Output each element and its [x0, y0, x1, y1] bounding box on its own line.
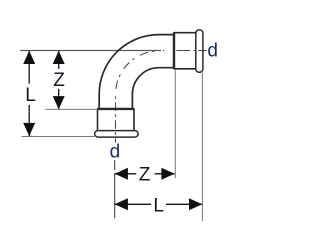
svg-text:L: L [25, 85, 36, 106]
centerline bend arc dash-dot [116, 51, 159, 94]
socket R body edges [174, 33, 196, 69]
dim L horizontal [115, 203, 203, 205]
svg-text:d: d [207, 40, 218, 61]
ext line Z bottom [46, 108, 98, 110]
socket B bead [95, 131, 138, 138]
dim Z horizontal [115, 173, 175, 175]
centerline vertical lower [114, 160, 116, 218]
svg-text:Z: Z [139, 165, 151, 186]
wire: top extension line merged with horizontal centerline [20, 50, 164, 52]
ext line right (from socket R face) [201, 73, 203, 222]
svg-text:d: d [110, 142, 121, 163]
ext line bottom face [22, 136, 95, 138]
socket R bead [196, 30, 203, 72]
socket B shoulder [97, 108, 135, 110]
svg-text:L: L [153, 196, 164, 217]
svg-text:Z: Z [53, 70, 65, 91]
dim L vertical [28, 51, 30, 137]
ext line mid (from socket R shoulder) [174, 70, 176, 178]
socket B body edges [98, 109, 135, 131]
centerline vertical upper [115, 94, 117, 142]
dim Z vertical [58, 51, 60, 110]
elbow outer contour [99, 35, 174, 108]
socket R shoulder [173, 32, 175, 69]
elbow inner contour [132, 68, 174, 108]
centerline in socket R (dash-dot) [176, 50, 206, 52]
